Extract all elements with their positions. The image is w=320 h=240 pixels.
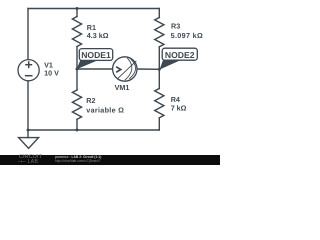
node NODE1 label box — [79, 49, 112, 61]
wire bottom horizontal — [28, 129, 159, 131]
wire middle branch upper lead — [76, 9, 78, 17]
svg-text:VM1: VM1 — [115, 83, 130, 92]
node NODE1 flag pointer — [77, 56, 97, 69]
svg-text:NODE2: NODE2 — [165, 50, 195, 60]
watermark bar — [0, 155, 220, 165]
node NODE2 label box — [162, 48, 197, 60]
wire middle branch lower lead — [76, 119, 78, 130]
svg-text:R2: R2 — [86, 96, 95, 105]
ground — [19, 138, 39, 149]
wire left vertical lower — [27, 81, 29, 130]
resistor R4 — [155, 89, 164, 118]
wire middle branch between R1 and node — [76, 47, 78, 70]
svg-text:variable Ω: variable Ω — [86, 105, 124, 114]
wire right branch node to R4 — [158, 69, 160, 88]
junction top middle — [76, 7, 79, 10]
junction node A (NODE1) — [76, 68, 79, 71]
resistor R2 — [72, 90, 81, 119]
wire voltmeter left — [78, 68, 113, 70]
wire right branch lower lead — [158, 118, 160, 130]
resistor R1 — [72, 17, 81, 47]
wire middle branch node to R2 — [76, 69, 78, 90]
wire left vertical upper — [27, 9, 29, 60]
wire voltmeter right — [137, 68, 159, 70]
resistor R3 — [155, 18, 164, 47]
junction node B (NODE2) — [158, 68, 161, 71]
svg-text:R3: R3 — [171, 22, 180, 31]
ground stub — [27, 130, 29, 138]
voltmeter VM1 — [113, 57, 137, 81]
voltage source V1 — [18, 60, 39, 81]
svg-text:NODE1: NODE1 — [81, 50, 111, 60]
wire right branch upper lead — [158, 9, 160, 18]
junction bottom middle — [76, 129, 79, 132]
wire right branch between R3 and node — [158, 47, 160, 70]
svg-text:4.3 kΩ: 4.3 kΩ — [87, 31, 109, 40]
svg-text:5.097 kΩ: 5.097 kΩ — [171, 31, 204, 40]
label V1 value — [44, 22, 203, 115]
junction bottom left — [27, 129, 30, 132]
node NODE2 flag pointer — [160, 56, 180, 70]
wire top horizontal — [28, 8, 159, 10]
svg-text:10 V: 10 V — [44, 69, 59, 78]
svg-text:7 kΩ: 7 kΩ — [171, 104, 187, 113]
